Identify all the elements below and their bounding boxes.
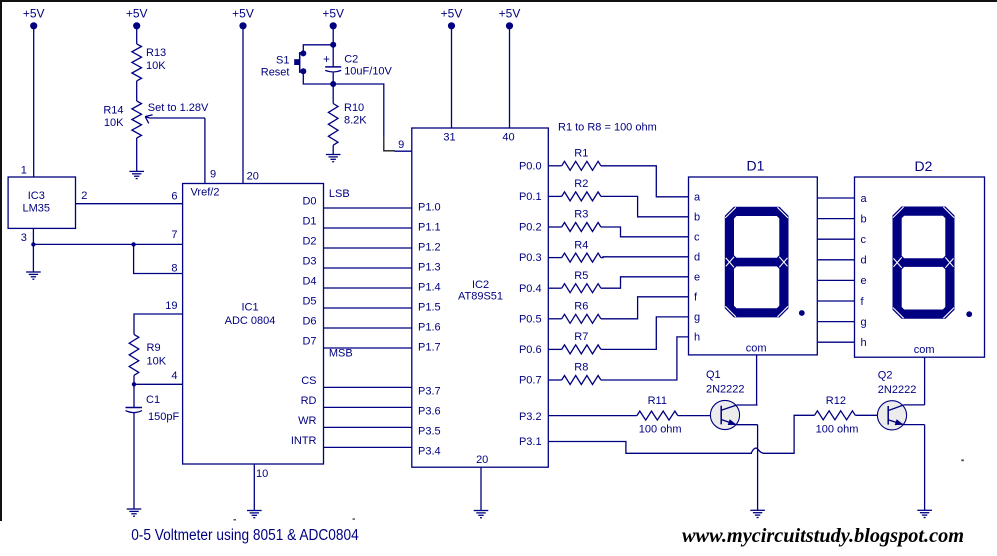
svg-text:150pF: 150pF bbox=[148, 411, 179, 423]
svg-text:b: b bbox=[861, 213, 867, 225]
svg-text:d: d bbox=[861, 255, 867, 267]
wire IC2 P0.3 to R4 bbox=[548, 257, 561, 259]
wire CS to P3.7 bbox=[324, 386, 412, 388]
wire D1 h to D2 h bbox=[817, 341, 854, 343]
svg-text:e: e bbox=[694, 272, 700, 284]
svg-text:20: 20 bbox=[247, 170, 259, 182]
svg-text:2N2222: 2N2222 bbox=[706, 384, 745, 396]
wire R7 to display segment g bbox=[601, 317, 689, 350]
power +5V (to IC2 pin 40) bbox=[499, 7, 521, 30]
wire D5 to P1.5 bbox=[324, 307, 412, 309]
wire pin 9 elbow (black segment) bbox=[384, 137, 395, 151]
resistor R9 bbox=[129, 334, 167, 375]
svg-text:2: 2 bbox=[81, 190, 87, 202]
resistor R10 bbox=[328, 102, 367, 145]
wire RD to P3.6 bbox=[324, 406, 412, 408]
wire D1 a to D2 a bbox=[817, 197, 854, 199]
wire R3 to display segment c bbox=[601, 227, 689, 237]
svg-text:7: 7 bbox=[171, 229, 177, 241]
svg-text:0-5 Voltmeter using 8051 & ADC: 0-5 Voltmeter using 8051 & ADC0804 bbox=[131, 527, 359, 544]
wire INTR to P3.4 bbox=[324, 446, 412, 448]
power +5V (to R13) bbox=[126, 7, 148, 30]
wire D4 to P1.4 bbox=[324, 287, 412, 289]
svg-text:D6: D6 bbox=[302, 316, 316, 328]
node pin7/pin8 junction bbox=[131, 242, 135, 246]
wire Q2 emitter to ground bbox=[924, 425, 926, 511]
svg-text:www.mycircuitstudy.blogspot.co: www.mycircuitstudy.blogspot.com bbox=[682, 525, 964, 547]
7-segment display D2 box bbox=[855, 177, 985, 357]
svg-text:R4: R4 bbox=[574, 239, 588, 251]
svg-text:1: 1 bbox=[21, 165, 27, 177]
wire +5V to IC2 pin 31 bbox=[451, 26, 453, 128]
ground (IC2 pin 20) bbox=[474, 511, 489, 518]
svg-text:R8: R8 bbox=[574, 362, 588, 374]
switch S1 bbox=[261, 50, 307, 78]
ground (R14) bbox=[129, 171, 144, 178]
svg-text:6: 6 bbox=[171, 191, 177, 203]
wire elbow to IC2 pin 9 bbox=[395, 150, 412, 152]
wire pin3 to IC1 pin 7 bbox=[33, 243, 182, 245]
frame left border bbox=[0, 0, 2, 521]
resistor R13 bbox=[132, 44, 166, 81]
svg-text:P0.6: P0.6 bbox=[519, 344, 542, 356]
svg-text:D2: D2 bbox=[302, 236, 316, 248]
frame top border bbox=[0, 0, 997, 2]
potentiometer R14 bbox=[103, 101, 141, 138]
svg-text:LSB: LSB bbox=[329, 188, 350, 200]
svg-text:D3: D3 bbox=[302, 256, 316, 268]
ground (Q2 emitter) bbox=[917, 510, 932, 517]
svg-text:2N2222: 2N2222 bbox=[878, 384, 917, 396]
wire junction to IC1 pin 4 bbox=[134, 383, 183, 385]
resistor R5 bbox=[562, 270, 601, 293]
ground (R10) bbox=[326, 155, 341, 162]
svg-text:INTR: INTR bbox=[291, 435, 317, 447]
IC3 LM35 bbox=[8, 177, 75, 228]
resistor R2 bbox=[562, 178, 601, 201]
svg-text:c: c bbox=[861, 234, 867, 246]
wire junction down to IC1 pin 8 bbox=[134, 244, 183, 273]
svg-text:+: + bbox=[323, 52, 330, 66]
wire R9 to junction bbox=[133, 375, 135, 384]
svg-text:WR: WR bbox=[298, 415, 316, 427]
ground (C1) bbox=[127, 509, 142, 516]
resistor R7 bbox=[562, 331, 601, 354]
svg-text:g: g bbox=[861, 316, 867, 328]
wire C2 junction to IC2 pin 9 bbox=[333, 84, 384, 137]
svg-text:R14: R14 bbox=[103, 104, 123, 116]
svg-text:IC1: IC1 bbox=[241, 301, 258, 313]
transistor Q2 bbox=[877, 370, 924, 430]
svg-text:Vref/2: Vref/2 bbox=[191, 186, 220, 198]
svg-text:P0.0: P0.0 bbox=[519, 160, 542, 172]
svg-text:a: a bbox=[861, 193, 868, 205]
wire D1 g to D2 g bbox=[817, 321, 854, 323]
svg-text:D1: D1 bbox=[302, 216, 316, 228]
node C2 bottom junction bbox=[330, 81, 336, 87]
wire IC2 P3.1 to R12 (with hop over Q1 emitter) bbox=[548, 442, 752, 454]
svg-text:P0.4: P0.4 bbox=[519, 283, 542, 295]
svg-text:P1.1: P1.1 bbox=[418, 222, 441, 234]
wire S1 bottom to C2 bottom junction bbox=[303, 72, 333, 84]
svg-text:LM35: LM35 bbox=[23, 202, 51, 214]
wire IC2 P0.6 to R7 bbox=[548, 348, 561, 350]
power +5V (to IC2 pin 31) bbox=[441, 7, 463, 30]
wire R13 to R14 bbox=[136, 81, 138, 101]
wire +5V down through C2 top junction bbox=[332, 26, 334, 67]
svg-text:40: 40 bbox=[502, 131, 514, 143]
svg-text:100 ohm: 100 ohm bbox=[816, 424, 859, 436]
resistor R12 bbox=[815, 395, 859, 436]
svg-text:IC3: IC3 bbox=[28, 190, 45, 202]
svg-text:CS: CS bbox=[301, 375, 316, 387]
resistor R1 bbox=[562, 148, 601, 171]
wire IC2 P0.0 to R1 bbox=[548, 165, 561, 167]
wire C1 to ground bbox=[133, 413, 135, 509]
wire D1 b to D2 b bbox=[817, 218, 854, 220]
wire WR to P3.5 bbox=[324, 426, 412, 428]
svg-text:R11: R11 bbox=[648, 395, 667, 407]
wire D0 to P1.0 bbox=[324, 207, 412, 209]
svg-text:P0.1: P0.1 bbox=[519, 191, 542, 203]
wire R5 to display segment e bbox=[601, 277, 689, 288]
svg-text:9: 9 bbox=[210, 168, 216, 180]
svg-text:D1: D1 bbox=[747, 157, 765, 173]
svg-text:R10: R10 bbox=[344, 102, 364, 114]
svg-text:10K: 10K bbox=[146, 60, 166, 72]
svg-text:R13: R13 bbox=[146, 47, 166, 59]
wire LM35 pin 2 to IC1 pin 6 bbox=[76, 203, 183, 205]
svg-text:Q1: Q1 bbox=[706, 369, 721, 381]
IC U2: IC2 AT89S51 box bbox=[412, 128, 549, 467]
svg-text:d: d bbox=[694, 252, 700, 264]
wire R10 to ground bbox=[332, 145, 334, 154]
svg-text:+5V: +5V bbox=[441, 7, 463, 21]
wire R2 to display segment b bbox=[601, 196, 689, 216]
svg-text:P1.3: P1.3 bbox=[418, 262, 441, 274]
svg-text:com: com bbox=[746, 342, 767, 354]
svg-text:a: a bbox=[694, 192, 701, 204]
wire junction to S1 top bbox=[303, 45, 333, 53]
ground (IC1 pin 10) bbox=[247, 511, 262, 518]
wire D2 com to Q2 collector bbox=[924, 357, 926, 405]
svg-text:R5: R5 bbox=[574, 270, 588, 282]
svg-text:D4: D4 bbox=[302, 276, 316, 288]
svg-text:IC2: IC2 bbox=[472, 279, 489, 291]
svg-text:P3.4: P3.4 bbox=[418, 445, 441, 457]
svg-text:R6: R6 bbox=[574, 301, 588, 313]
wire LM35 pin 3 down bbox=[32, 228, 34, 272]
svg-text:P0.2: P0.2 bbox=[519, 222, 542, 234]
wire Q1 emitter to ground bbox=[757, 425, 759, 511]
stray mark 3 bbox=[961, 459, 964, 461]
svg-text:R1: R1 bbox=[574, 148, 588, 160]
wire D1 d to D2 d bbox=[817, 259, 854, 261]
svg-text:P3.7: P3.7 bbox=[418, 385, 441, 397]
svg-text:com: com bbox=[914, 344, 935, 356]
svg-text:g: g bbox=[694, 312, 700, 324]
svg-text:b: b bbox=[694, 212, 700, 224]
svg-text:D2: D2 bbox=[915, 158, 933, 174]
svg-text:9: 9 bbox=[398, 139, 404, 151]
stray mark 1 bbox=[234, 519, 237, 521]
ground (Q1 emitter) bbox=[750, 510, 765, 517]
svg-text:4: 4 bbox=[171, 370, 177, 382]
op-amp/IC U1: IC1 ADC 0804 box bbox=[183, 184, 324, 465]
svg-text:Reset: Reset bbox=[261, 67, 290, 79]
wire IC1 pin 10 to ground bbox=[253, 464, 255, 511]
svg-text:P3.5: P3.5 bbox=[418, 425, 441, 437]
wire R12 to Q2 base bbox=[855, 414, 877, 416]
capacitor C2 bbox=[323, 52, 393, 78]
svg-text:P3.1: P3.1 bbox=[519, 436, 542, 448]
svg-text:10K: 10K bbox=[147, 356, 167, 368]
svg-text:R9: R9 bbox=[147, 342, 161, 354]
wire D7 to P1.7 bbox=[324, 347, 412, 349]
svg-text:31: 31 bbox=[443, 131, 455, 143]
wire R1 to display segment a bbox=[601, 166, 689, 197]
svg-text:c: c bbox=[694, 232, 700, 244]
wire IC2 P0.1 to R2 bbox=[548, 195, 561, 197]
resistor R8 bbox=[562, 362, 601, 385]
svg-text:D7: D7 bbox=[302, 336, 316, 348]
wire D1 c to D2 c bbox=[817, 238, 854, 240]
wire junction down to C1 bbox=[133, 384, 135, 407]
R14 wiper arrow and wire to IC1 pin 9 bbox=[145, 117, 205, 118]
node R9/C1/pin4 junction bbox=[132, 382, 136, 386]
node LM35 pin3 junction bbox=[31, 242, 35, 246]
wire D1 com to Q1 collector bbox=[756, 355, 758, 405]
7-segment display D1 box bbox=[689, 177, 818, 355]
svg-text:3: 3 bbox=[21, 232, 27, 244]
svg-text:AT89S51: AT89S51 bbox=[458, 291, 503, 303]
capacitor C1 bbox=[126, 394, 180, 423]
wire IC2 P0.2 to R3 bbox=[548, 226, 561, 228]
svg-text:10K: 10K bbox=[104, 117, 124, 129]
wire D2 to P1.2 bbox=[324, 247, 412, 249]
wire IC2 P0.5 to R6 bbox=[548, 318, 561, 320]
svg-text:+5V: +5V bbox=[322, 7, 344, 21]
node C2 top junction bbox=[330, 42, 336, 48]
wire D1 f to D2 f bbox=[817, 300, 854, 302]
svg-text:h: h bbox=[694, 332, 700, 344]
svg-text:ADC 0804: ADC 0804 bbox=[225, 315, 276, 327]
svg-text:R2: R2 bbox=[574, 178, 588, 190]
wire C2 to bottom junction and R10 bbox=[332, 73, 334, 104]
wire R11 to Q1 base bbox=[678, 415, 711, 417]
svg-text:+5V: +5V bbox=[232, 7, 254, 21]
svg-text:h: h bbox=[861, 337, 867, 349]
power +5V (to S1 / C2) bbox=[322, 7, 344, 30]
svg-text:MSB: MSB bbox=[329, 347, 353, 359]
wire R14 to ground bbox=[136, 138, 138, 171]
wire D3 to P1.3 bbox=[324, 267, 412, 269]
wire IC2 P3.2 to R11 bbox=[548, 415, 637, 417]
svg-text:P3.2: P3.2 bbox=[519, 411, 542, 423]
svg-text:19: 19 bbox=[165, 300, 177, 312]
ground (LM35 pin 3) bbox=[26, 272, 41, 279]
svg-text:20: 20 bbox=[476, 454, 488, 466]
wire D1 to P1.1 bbox=[324, 227, 412, 229]
stray mark 2 bbox=[353, 518, 356, 520]
svg-text:Q2: Q2 bbox=[878, 370, 893, 382]
wire R6 to display segment f bbox=[601, 297, 689, 319]
svg-text:8.2K: 8.2K bbox=[344, 115, 367, 127]
wire +5V to IC1 pin 20 bbox=[242, 26, 244, 184]
resistor R4 bbox=[562, 239, 601, 262]
wire R8 to display segment h bbox=[601, 337, 689, 380]
transistor Q1 bbox=[706, 369, 758, 430]
wire +5V to IC2 pin 40 bbox=[509, 26, 511, 128]
svg-text:D5: D5 bbox=[302, 296, 316, 308]
power +5V (to IC3 LM35 pin 1) bbox=[23, 7, 45, 30]
svg-text:D0: D0 bbox=[302, 196, 316, 208]
svg-text:e: e bbox=[861, 275, 867, 287]
svg-text:P1.2: P1.2 bbox=[418, 242, 441, 254]
resistor R3 bbox=[562, 209, 601, 232]
svg-text:8: 8 bbox=[171, 263, 177, 275]
svg-text:10uF/10V: 10uF/10V bbox=[344, 66, 392, 78]
svg-text:P1.5: P1.5 bbox=[418, 302, 441, 314]
svg-text:S1: S1 bbox=[276, 54, 289, 66]
svg-text:C2: C2 bbox=[344, 54, 358, 66]
svg-text:P0.5: P0.5 bbox=[519, 313, 542, 325]
power +5V (to IC1 pin 20) bbox=[232, 7, 254, 30]
wire D1 e to D2 e bbox=[817, 279, 854, 281]
svg-text:R7: R7 bbox=[574, 331, 588, 343]
svg-text:+5V: +5V bbox=[499, 7, 521, 21]
svg-text:C1: C1 bbox=[146, 394, 160, 406]
svg-text:P1.7: P1.7 bbox=[418, 342, 441, 354]
resistor R6 bbox=[562, 301, 601, 324]
svg-text:P1.0: P1.0 bbox=[418, 202, 441, 214]
svg-text:P1.6: P1.6 bbox=[418, 322, 441, 334]
svg-text:P1.4: P1.4 bbox=[418, 282, 441, 294]
D2 digit (7-segment 8) bbox=[893, 207, 973, 319]
svg-text:R1 to R8 = 100 ohm: R1 to R8 = 100 ohm bbox=[558, 121, 657, 133]
wire +5V to LM35 pin 1 bbox=[33, 26, 35, 177]
D1 digit (7-segment 8) bbox=[725, 207, 805, 318]
wire IC2 P0.4 to R5 bbox=[548, 287, 561, 289]
wire D6 to P1.6 bbox=[324, 327, 412, 329]
resistor R11 bbox=[637, 395, 682, 436]
wire IC2 P0.7 to R8 bbox=[548, 379, 561, 381]
svg-text:100 ohm: 100 ohm bbox=[639, 424, 682, 436]
wire IC1 pin 19 to R9 bbox=[134, 314, 183, 334]
svg-text:+5V: +5V bbox=[23, 7, 45, 21]
svg-text:Set to 1.28V: Set to 1.28V bbox=[148, 102, 209, 114]
svg-text:10: 10 bbox=[256, 468, 268, 480]
svg-text:P3.6: P3.6 bbox=[418, 405, 441, 417]
svg-text:+5V: +5V bbox=[126, 7, 148, 21]
svg-text:R3: R3 bbox=[574, 209, 588, 221]
svg-text:R12: R12 bbox=[826, 395, 846, 407]
wire IC2 pin 20 to ground bbox=[480, 467, 482, 510]
svg-text:P0.7: P0.7 bbox=[519, 375, 542, 387]
wire +5V to R13 bbox=[136, 26, 138, 44]
wire R4 to display segment d bbox=[601, 256, 689, 259]
svg-text:P0.3: P0.3 bbox=[519, 252, 542, 264]
svg-text:RD: RD bbox=[301, 395, 317, 407]
